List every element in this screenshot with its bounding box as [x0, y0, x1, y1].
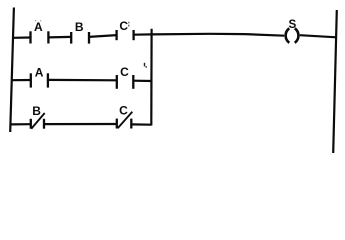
svg-text:C: C: [120, 65, 129, 79]
svg-text:A: A: [35, 66, 44, 80]
svg-text:B: B: [32, 104, 41, 118]
svg-text:A: A: [34, 20, 43, 34]
svg-text:S: S: [289, 18, 297, 31]
svg-text:C: C: [119, 103, 128, 117]
svg-text:C: C: [119, 19, 128, 33]
svg-text:B: B: [75, 20, 84, 34]
